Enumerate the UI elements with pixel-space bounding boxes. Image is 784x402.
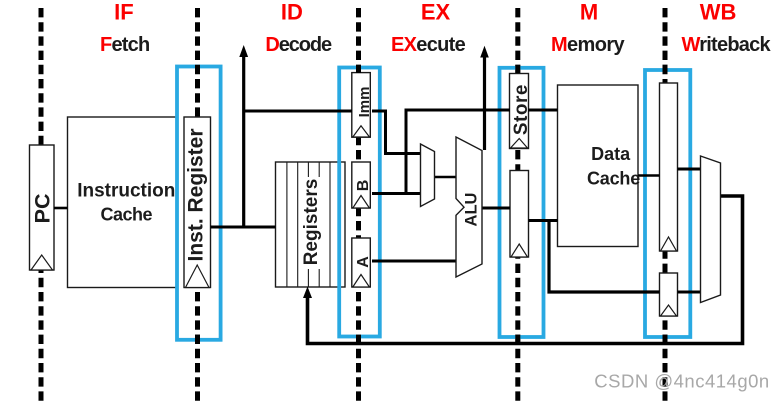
svg-text:Fetch: Fetch	[100, 34, 149, 56]
svg-text:Memory: Memory	[551, 34, 626, 56]
svg-text:Data: Data	[591, 144, 631, 164]
svg-text:Store: Store	[511, 84, 532, 135]
svg-text:IF: IF	[114, 0, 134, 25]
svg-text:M: M	[580, 0, 598, 25]
svg-text:Instruction: Instruction	[77, 181, 175, 202]
svg-text:ID: ID	[281, 0, 303, 25]
svg-text:A: A	[355, 256, 372, 268]
svg-text:WB: WB	[700, 0, 737, 25]
svg-text:B: B	[355, 180, 372, 192]
svg-text:PC: PC	[31, 193, 55, 223]
svg-text:Cache: Cache	[587, 169, 640, 189]
svg-text:Imm: Imm	[356, 87, 373, 118]
svg-text:CSDN @4nc414g0n: CSDN @4nc414g0n	[594, 371, 769, 392]
svg-text:EX: EX	[421, 0, 451, 25]
svg-text:EXecute: EXecute	[391, 34, 466, 56]
svg-text:Cache: Cache	[101, 205, 153, 225]
svg-text:ALU: ALU	[463, 193, 481, 227]
svg-text:Writeback: Writeback	[681, 34, 771, 56]
svg-text:Decode: Decode	[265, 34, 332, 56]
svg-text:Inst. Register: Inst. Register	[184, 128, 207, 261]
svg-text:Registers: Registers	[301, 179, 322, 266]
